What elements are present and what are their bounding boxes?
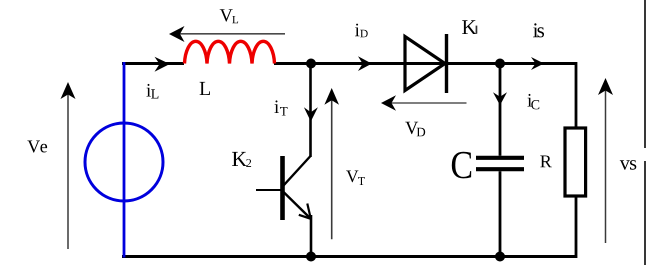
wire transistor collector vertical	[309, 64, 312, 158]
label VT	[346, 171, 365, 186]
arrow VD measurement	[381, 95, 467, 110]
wire top middle segment	[274, 62, 576, 65]
diode K1	[405, 34, 447, 93]
label iC	[527, 94, 539, 110]
wire bottom	[122, 255, 577, 258]
node junction top right	[495, 59, 505, 69]
label K1	[462, 20, 476, 34]
source Ve blue vertical wire	[123, 62, 126, 258]
arrow iC	[493, 92, 507, 105]
label K2	[232, 152, 251, 167]
node junction bottom left	[306, 252, 316, 262]
label C	[452, 152, 471, 179]
label Ve	[27, 141, 47, 153]
arrow Ve measurement	[61, 82, 76, 249]
wire right vertical top	[575, 62, 578, 128]
label vs	[620, 160, 637, 170]
border line right lower	[644, 161, 646, 265]
capacitor C	[476, 158, 524, 169]
wire transistor emitter vertical	[310, 215, 313, 257]
wire right vertical bottom	[575, 196, 578, 258]
arrow iL	[155, 57, 170, 72]
wire capacitor top	[499, 64, 502, 156]
label L	[200, 82, 210, 95]
arrow VL measurement	[169, 26, 285, 42]
arrow vs measurement	[598, 78, 613, 243]
transistor K2	[256, 156, 311, 220]
label iD	[355, 24, 368, 38]
node junction top left	[306, 59, 316, 69]
source Ve circle	[85, 123, 163, 201]
label VD	[405, 122, 425, 137]
label iT	[274, 100, 287, 115]
label iL	[146, 84, 158, 99]
inductor L	[185, 41, 275, 63]
wire capacitor bottom	[499, 171, 502, 257]
wire top left segment	[122, 62, 184, 65]
arrow is	[531, 57, 544, 70]
label VL	[220, 9, 238, 23]
label R	[540, 156, 552, 168]
resistor R	[565, 128, 586, 196]
arrow iT	[304, 107, 318, 121]
arrow iD	[358, 56, 372, 71]
label is	[533, 23, 544, 37]
border line right upper	[644, 0, 646, 148]
arrow VT measurement	[324, 88, 339, 239]
node junction bottom right	[495, 252, 505, 262]
